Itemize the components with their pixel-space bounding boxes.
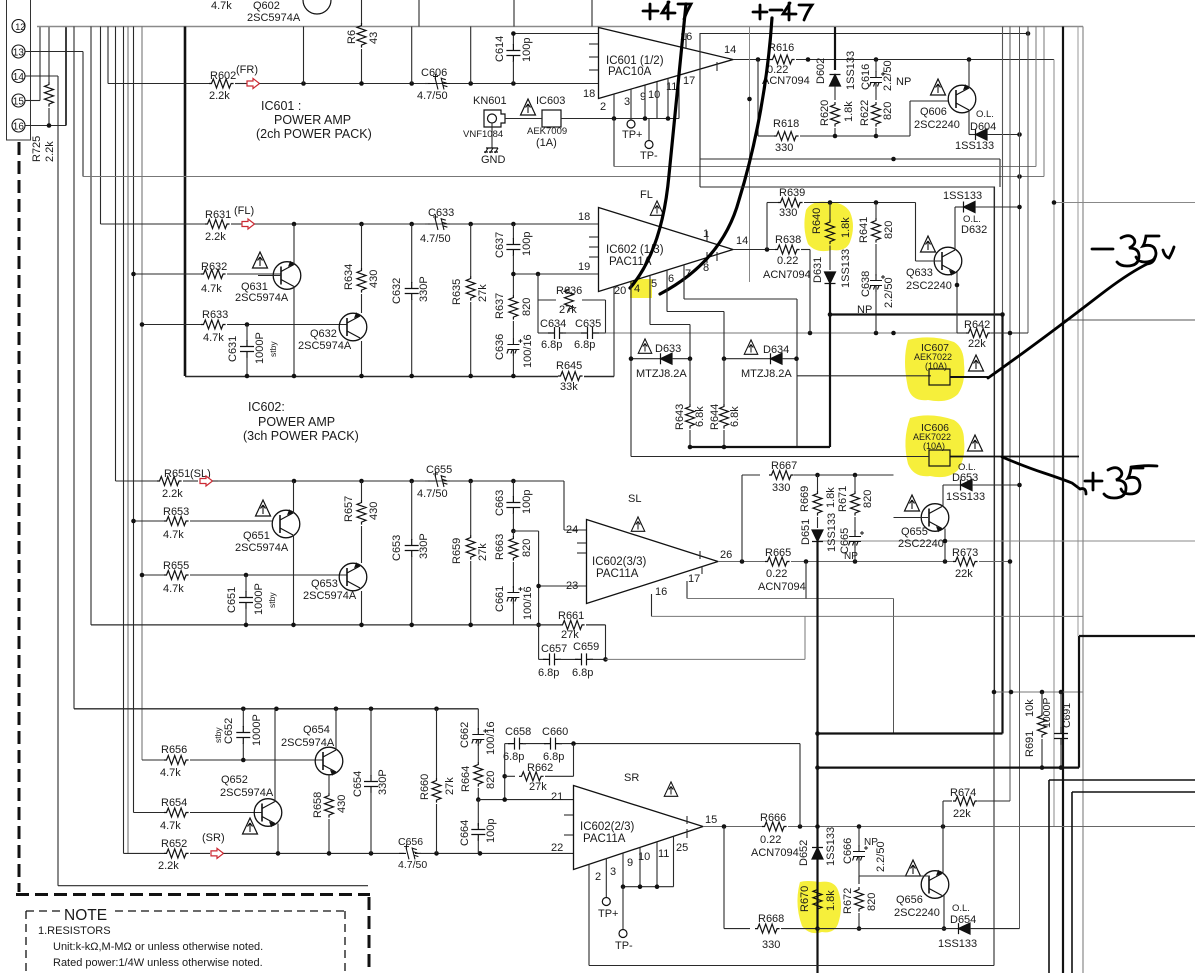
svg-text:R674: R674 (950, 787, 976, 799)
svg-text:R654: R654 (161, 797, 187, 809)
wire Q656 collector (942, 827, 944, 875)
pin 16 (12, 119, 25, 132)
resistor R654 (134, 812, 165, 814)
svg-text:Q653: Q653 (311, 578, 338, 590)
wire SR out row (703, 826, 762, 828)
wire Q631 base (258, 275, 281, 277)
pin ticks IC602-3 (577, 542, 586, 544)
capacitor C664 (476, 797, 481, 802)
resistor R645 (558, 372, 583, 381)
svg-text:C634: C634 (540, 318, 566, 330)
svg-text:C635: C635 (575, 318, 601, 330)
svg-text:2.2k: 2.2k (209, 90, 230, 102)
svg-text:9: 9 (627, 857, 633, 869)
yellow highlight R640 (804, 202, 853, 251)
svg-text:PAC11A: PAC11A (583, 833, 626, 845)
svg-text:330P: 330P (418, 533, 430, 559)
svg-text:C606: C606 (421, 67, 447, 79)
handwritten +-47 right (753, 3, 812, 20)
resistor R602 (108, 83, 209, 85)
handwritten -35v text (1092, 236, 1174, 266)
wire mystery vertical (749, 27, 751, 283)
svg-text:IC602(2/3): IC602(2/3) (580, 821, 635, 833)
vertical bus i (141, 27, 143, 761)
svg-text:O.L.: O.L. (952, 903, 970, 914)
svg-text:R643: R643 (674, 404, 686, 430)
svg-text:100/16: 100/16 (485, 721, 497, 755)
svg-text:6.8k: 6.8k (694, 406, 706, 427)
bus v7 gray (1053, 60, 1055, 827)
op-amp IC602-1 (599, 208, 734, 292)
pin tick IC601 16 (685, 33, 687, 49)
svg-text:2SC5974A: 2SC5974A (303, 590, 357, 602)
capacitor C654 (370, 709, 372, 776)
svg-text:820: 820 (866, 893, 878, 911)
svg-text:R662: R662 (527, 762, 553, 774)
svg-text:13: 13 (13, 48, 25, 59)
svg-text:Q654: Q654 (303, 724, 330, 736)
svg-text:(FR): (FR) (236, 64, 258, 76)
svg-text:15: 15 (13, 97, 25, 108)
resistor R631 (101, 223, 206, 225)
capacitor C655 (425, 480, 430, 482)
wire Q633 base (915, 203, 917, 262)
resistor R661 (560, 620, 585, 629)
svg-text:1SS133: 1SS133 (946, 491, 985, 503)
resistor R666 (762, 822, 787, 831)
svg-text:MTZJ8.2A: MTZJ8.2A (741, 368, 792, 380)
resistor R673 (953, 557, 978, 566)
svg-text:C657: C657 (541, 643, 567, 655)
svg-text:0.22: 0.22 (760, 834, 781, 846)
svg-text:17: 17 (683, 75, 695, 87)
bus v6 thick (1062, 27, 1064, 973)
svg-text:18: 18 (583, 88, 595, 100)
capacitor C665 (849, 530, 862, 548)
svg-text:27k: 27k (529, 781, 547, 793)
yellow highlight pin4 (630, 279, 652, 298)
resistor R655 (142, 574, 164, 576)
svg-text:(3ch POWER PACK): (3ch POWER PACK) (243, 429, 359, 443)
wire y541 right (818, 540, 1195, 542)
wire pin16 (25, 125, 66, 127)
connector J (7, 0, 31, 140)
transistor Q655 (905, 495, 920, 511)
svg-text:TP+: TP+ (598, 908, 618, 920)
capacitor C614 (512, 34, 514, 46)
diode D651 (812, 530, 823, 542)
wire Q633 emitter (956, 272, 958, 333)
wire R645 to IC607 (797, 375, 932, 377)
vertical bus f (123, 27, 125, 854)
wire pins row (623, 886, 674, 888)
resistor R664 (474, 762, 483, 787)
resistor R691 (1041, 692, 1043, 713)
SL bottom rail (91, 624, 560, 626)
svg-text:R632: R632 (201, 261, 227, 273)
capacitor C661 (507, 586, 520, 604)
vertical bus k thick (184, 27, 187, 377)
svg-text:R667: R667 (771, 460, 797, 472)
wire C660 down (799, 744, 801, 827)
svg-text:ACN7094: ACN7094 (758, 581, 806, 593)
svg-text:3: 3 (624, 96, 630, 108)
wire Q656 base (859, 875, 928, 877)
svg-text:R665: R665 (765, 547, 791, 559)
svg-text:27k: 27k (559, 304, 577, 316)
svg-text:Q632: Q632 (310, 328, 337, 340)
svg-text:4.7/50: 4.7/50 (417, 488, 448, 500)
capacitor C633 (425, 223, 430, 225)
svg-text:4.7k: 4.7k (163, 583, 184, 595)
vertical bus h (133, 27, 135, 813)
svg-text:100p: 100p (521, 490, 533, 514)
wire Q655 collector (942, 485, 944, 507)
dashed border corner down (368, 897, 371, 973)
test point TP+ SR (602, 898, 610, 906)
svg-text:D632: D632 (961, 224, 987, 236)
svg-text:PAC11A: PAC11A (596, 568, 639, 580)
svg-text:4.7/50: 4.7/50 (417, 90, 448, 102)
svg-text:1000P: 1000P (251, 714, 263, 746)
resistor R632 (134, 273, 202, 275)
svg-text:NP: NP (844, 551, 858, 562)
resistor R644 (723, 359, 725, 404)
svg-text:2SC5974A: 2SC5974A (235, 292, 289, 304)
svg-text:C614: C614 (494, 36, 506, 62)
FL box (700, 187, 995, 690)
svg-text:330: 330 (772, 482, 790, 494)
red arrow FL (242, 219, 255, 229)
svg-text:100p: 100p (521, 38, 533, 62)
wire SL out row (718, 561, 765, 563)
svg-text:Q656: Q656 (896, 894, 923, 906)
capacitor C631 (246, 325, 248, 342)
wire stub top3 (591, 0, 593, 27)
resistor R658 (325, 793, 334, 818)
yellow highlight IC607 (905, 337, 964, 401)
svg-text:IC601 :: IC601 : (261, 99, 301, 113)
svg-text:R639: R639 (779, 187, 805, 199)
resistor R668 (723, 827, 725, 929)
bottom-left rail (58, 885, 368, 887)
svg-text:2SC5974A: 2SC5974A (220, 787, 274, 799)
svg-text:R661: R661 (558, 610, 584, 622)
svg-text:C654: C654 (352, 771, 364, 797)
wire C614 top row (513, 33, 598, 35)
svg-text:4.7/50: 4.7/50 (420, 233, 451, 245)
warning IC603 (521, 99, 536, 115)
resistor R674 (942, 801, 944, 827)
svg-text:PAC10A: PAC10A (608, 66, 652, 78)
svg-text:1SS133: 1SS133 (943, 190, 982, 202)
pin ticks IC601 left (589, 43, 598, 45)
pin 15 (12, 94, 25, 107)
svg-text:18: 18 (578, 211, 590, 223)
svg-text:100p: 100p (485, 819, 497, 843)
svg-text:R618: R618 (773, 118, 799, 130)
svg-text:2SC5974A: 2SC5974A (281, 737, 335, 749)
svg-text:Rated power:1/4W unless otherw: Rated power:1/4W unless otherwise noted. (53, 957, 263, 969)
svg-text:C655: C655 (426, 464, 452, 476)
svg-text:10k: 10k (1024, 699, 1036, 717)
svg-text:2: 2 (600, 101, 606, 113)
svg-text:4.7/50: 4.7/50 (398, 859, 427, 871)
svg-text:820: 820 (862, 490, 874, 508)
svg-text:C653: C653 (391, 535, 403, 561)
pin6 net (666, 270, 668, 312)
diode D653 (943, 484, 960, 486)
svg-text:1SS133: 1SS133 (955, 140, 994, 152)
pin 13 (12, 45, 25, 58)
svg-text:Q602: Q602 (253, 0, 280, 12)
wire C606 verts (303, 27, 305, 84)
yellow highlight R670 (797, 881, 841, 933)
svg-text:820: 820 (521, 539, 533, 557)
svg-text:4.7k: 4.7k (160, 767, 181, 779)
transistor Q652 (254, 799, 282, 827)
svg-text:6.8p: 6.8p (574, 339, 595, 351)
svg-text:R652: R652 (161, 838, 187, 850)
svg-text:820: 820 (883, 221, 895, 239)
svg-text:12: 12 (15, 22, 25, 32)
svg-text:430: 430 (336, 795, 348, 813)
svg-text:R725: R725 (31, 136, 43, 162)
capacitor C651 (245, 575, 247, 592)
svg-text:IC602(3/3): IC602(3/3) (592, 556, 647, 568)
svg-text:R642: R642 (964, 319, 990, 331)
handwritten -35 line (988, 257, 1155, 378)
svg-text:24: 24 (566, 524, 578, 536)
capacitors C658 C660 (505, 743, 510, 745)
svg-text:R691: R691 (1024, 731, 1036, 757)
resistor R656 (142, 759, 164, 761)
capacitor C606 (425, 83, 430, 85)
svg-text:820: 820 (521, 298, 533, 316)
svg-text:1SS133: 1SS133 (845, 51, 857, 90)
op-amp IC602-2 (574, 786, 704, 870)
bus v9 gray (1082, 27, 1084, 973)
wire Q654 collector (335, 709, 337, 750)
wire Q652 emitter (277, 824, 279, 854)
svg-text:1SS133: 1SS133 (825, 827, 837, 866)
svg-text:1SS133: 1SS133 (826, 513, 838, 552)
red arrow SL (200, 476, 213, 486)
wire IC606 out (950, 456, 1079, 458)
transistor Q656 (906, 860, 921, 876)
svg-text:C660: C660 (542, 726, 568, 738)
svg-text:D634: D634 (763, 344, 789, 356)
wire pin21 (478, 799, 573, 801)
svg-text:820: 820 (485, 771, 497, 789)
pin5 net (649, 276, 651, 325)
red arrow SR (211, 848, 224, 858)
diode D654 (818, 928, 960, 930)
wire pin4 down (630, 282, 632, 456)
wire IC601 out row (733, 59, 770, 61)
FL bottom rail (185, 376, 558, 378)
resistor R670 (813, 887, 822, 912)
wire pin20 net (613, 287, 615, 377)
wire R674 up (1009, 800, 1011, 802)
dashed border left (18, 142, 21, 892)
svg-text:IC602:: IC602: (248, 400, 285, 414)
svg-text:Q655: Q655 (901, 526, 928, 538)
transistor Q653 (339, 563, 367, 591)
diode D634 (724, 358, 771, 360)
svg-text:19: 19 (578, 261, 590, 273)
svg-text:1000P: 1000P (254, 332, 266, 364)
pin17 net (686, 581, 688, 599)
resistor R635 (470, 224, 472, 276)
resistor R616 (770, 55, 795, 64)
capacitor C636 (507, 338, 520, 356)
bus v1 (993, 187, 995, 690)
svg-text:R616: R616 (768, 42, 794, 54)
svg-text:R622: R622 (859, 100, 871, 126)
svg-text:C661: C661 (494, 586, 506, 612)
svg-text:(FL): (FL) (234, 205, 254, 217)
svg-text:C631: C631 (227, 336, 239, 362)
svg-text:Q651: Q651 (243, 530, 270, 542)
svg-text:2SC2240: 2SC2240 (914, 119, 960, 131)
svg-text:1: 1 (703, 228, 709, 240)
svg-text:C662: C662 (459, 722, 471, 748)
svg-text:Q652: Q652 (221, 774, 248, 786)
thick box A (818, 732, 1003, 734)
svg-text:330P: 330P (418, 276, 430, 302)
svg-text:R631: R631 (205, 209, 231, 221)
svg-text:R620: R620 (819, 100, 831, 126)
resistor R659 (470, 481, 472, 535)
SR top rail (74, 708, 478, 710)
svg-text:1SS133: 1SS133 (938, 938, 977, 950)
svg-text:D633: D633 (655, 343, 681, 355)
svg-text:22: 22 (551, 842, 563, 854)
svg-text:4.7k: 4.7k (211, 0, 232, 12)
resistor R634 (361, 224, 363, 268)
svg-text:D604: D604 (970, 121, 996, 133)
resistor R667 row (741, 475, 743, 562)
svg-text:D651: D651 (800, 519, 812, 545)
wire Q631 emitter (293, 286, 295, 376)
wire R638 down (809, 250, 811, 334)
wire y333 long (606, 332, 958, 334)
svg-text:R634: R634 (343, 264, 355, 290)
svg-text:R656: R656 (161, 744, 187, 756)
svg-text:R645: R645 (556, 360, 582, 372)
svg-text:ACN7094: ACN7094 (763, 269, 811, 281)
svg-text:R6: R6 (346, 30, 358, 44)
svg-text:SR: SR (624, 772, 639, 784)
wire IC607 out (950, 376, 988, 378)
test point TP- (648, 119, 650, 141)
wire y692 (993, 689, 995, 691)
wire D634 right junction (794, 356, 799, 361)
svg-text:R658: R658 (312, 792, 324, 818)
svg-text:330: 330 (762, 939, 780, 951)
svg-text:2SC2240: 2SC2240 (894, 907, 940, 919)
wire Q606 collector (968, 60, 970, 89)
svg-text:1SS133: 1SS133 (840, 249, 852, 288)
resistor R639 row (766, 203, 768, 250)
svg-text:NP: NP (896, 76, 911, 88)
wire pin24 (563, 481, 565, 530)
svg-text:R660: R660 (419, 774, 431, 800)
svg-text:AEK7009: AEK7009 (527, 126, 567, 137)
wire Q606 base (910, 100, 948, 102)
svg-text:6.8p: 6.8p (503, 751, 524, 763)
svg-text:R655: R655 (163, 560, 189, 572)
wire pin13 (25, 51, 83, 53)
svg-text:1000P: 1000P (253, 583, 265, 615)
wire SR row (224, 852, 405, 854)
svg-text:4: 4 (634, 283, 640, 295)
diode D602 + resistor R620 (834, 27, 836, 70)
svg-text:100p: 100p (521, 232, 533, 256)
svg-text:2SC2240: 2SC2240 (906, 280, 952, 292)
svg-text:14: 14 (13, 72, 25, 83)
resistor R663 (511, 529, 516, 534)
bus v5 (1027, 27, 1029, 334)
svg-text:4.7k: 4.7k (163, 529, 184, 541)
diode D633 (631, 358, 661, 360)
svg-text:R672: R672 (842, 888, 854, 914)
svg-text:NOTE: NOTE (64, 907, 107, 924)
wire FR row (260, 83, 599, 85)
svg-text:2.2/50: 2.2/50 (882, 60, 894, 91)
thick box B (818, 766, 1080, 768)
svg-text:C666: C666 (842, 838, 854, 864)
svg-text:C637: C637 (494, 232, 506, 258)
capacitor C663 (512, 481, 514, 497)
wire Q656 emitter (943, 896, 945, 929)
bus v2 (1002, 27, 1004, 315)
svg-text:C651: C651 (226, 587, 238, 613)
svg-text:2.2k: 2.2k (162, 488, 183, 500)
svg-text:C656: C656 (398, 836, 423, 848)
FL zener rail (690, 446, 830, 448)
svg-text:C633: C633 (428, 207, 454, 219)
svg-text:2: 2 (595, 871, 601, 883)
resistor R636 (537, 274, 539, 300)
yellow highlight IC606 (905, 415, 964, 477)
wire pin2 down (613, 119, 615, 167)
svg-text:330P: 330P (377, 769, 389, 795)
pin 14 (12, 70, 25, 83)
svg-text:(2ch POWER PACK): (2ch POWER PACK) (256, 127, 372, 141)
handwritten +35 line (1002, 457, 1086, 494)
wire IC603 out (561, 118, 679, 120)
resistor R651 (116, 480, 158, 482)
svg-text:6.8p: 6.8p (541, 339, 562, 351)
svg-text:O.L.: O.L. (976, 109, 994, 120)
svg-text:4.7k: 4.7k (160, 820, 181, 832)
svg-text:1.8k: 1.8k (825, 487, 837, 508)
svg-text:TP-: TP- (640, 150, 658, 162)
svg-text:R666: R666 (760, 812, 786, 824)
wire y320 right (1063, 319, 1195, 321)
svg-text:R669: R669 (799, 486, 811, 512)
pin ticks IC602-1 (589, 236, 598, 238)
capacitor C638 (870, 274, 883, 292)
svg-text:14: 14 (724, 44, 736, 56)
svg-text:1.8k: 1.8k (840, 217, 852, 238)
wire C656 right (416, 852, 574, 854)
bus v4 OL (1019, 27, 1021, 929)
wire Q606 emitter (968, 110, 970, 135)
svg-text:0.22: 0.22 (766, 568, 787, 580)
